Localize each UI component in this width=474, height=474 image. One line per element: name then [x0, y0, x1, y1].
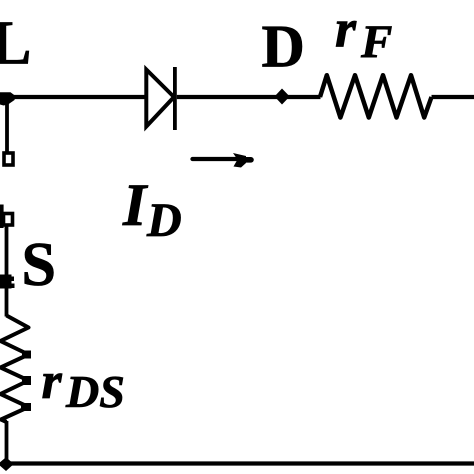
current arrow ID tip stub [245, 157, 251, 163]
wire top horizontal (L node to diode anode) [0, 95, 147, 99]
wire stub at left edge (cropped gate lead) [0, 205, 4, 229]
current arrow ID shaft [193, 157, 241, 161]
node S right nub [10, 277, 14, 282]
node L junction dot [0, 92, 16, 105]
resistor rDS tip blob 2 [22, 376, 31, 385]
svg-text:S: S [22, 231, 56, 299]
node S junction dot [0, 275, 12, 289]
svg-text:I: I [122, 172, 149, 238]
svg-text:r: r [42, 353, 63, 410]
resistor rDS tip blob 1 [22, 351, 31, 359]
terminal square upper (switch drain) [4, 153, 13, 165]
diode D1 cathode bar [173, 67, 177, 130]
svg-text:F: F [360, 16, 392, 68]
svg-text:L: L [0, 10, 31, 78]
terminal square lower (switch source) [4, 214, 13, 226]
resistor rDS tip blob 3 [21, 403, 31, 411]
node D junction dot [275, 89, 290, 105]
wire L node down to drain terminal [5, 97, 9, 153]
wire rF to right edge [432, 95, 474, 99]
wire diode cathode to resistor rF [177, 95, 321, 99]
svg-text:D: D [262, 13, 305, 79]
current arrow ID head [233, 153, 246, 168]
wire bottom rail [6, 461, 474, 465]
bottom node junction dot [0, 457, 14, 471]
svg-text:D: D [146, 194, 182, 247]
node S lower nub [10, 284, 15, 289]
wire source terminal to node S [5, 227, 9, 279]
wire node S down to rDS [5, 280, 9, 317]
diode D1 triangle (anode) [146, 70, 174, 127]
resistor rDS zigzag [1, 316, 29, 423]
svg-text:r: r [335, 0, 357, 58]
svg-text:DS: DS [65, 366, 125, 417]
resistor rF zigzag [320, 75, 432, 117]
wire rDS to bottom node [5, 421, 9, 460]
